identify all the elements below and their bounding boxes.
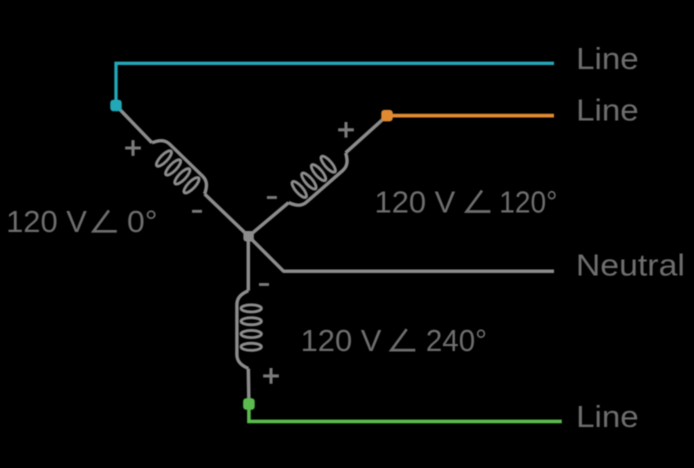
polarity + of winding L3 [263,368,279,384]
wire from node N down to winding L3 [247,236,251,290]
node A (phase A terminal dot, teal) [110,100,122,112]
wire from winding L3 to phase-C node [247,369,251,405]
svg-text:120 V: 120 V [6,204,87,239]
polarity + of winding L1 [125,140,141,156]
wire from neutral node N to winding L2 [249,203,289,237]
svg-text:0°: 0° [127,204,158,239]
svg-text:Neutral: Neutral [576,248,685,283]
polarity - of winding L3 [259,283,269,286]
svg-text:120 V: 120 V [375,184,456,219]
node N (neutral center node dot) [243,231,254,242]
wire from phase-A node to winding L1 [116,106,152,143]
svg-text:240°: 240° [426,323,487,358]
wire from winding L1 to neutral node N [205,194,249,236]
inductor winding L2 (120 V at 120 deg) [280,143,353,211]
wire: orange line conductor from phase-B node to Line terminal [387,114,554,118]
polarity + of winding L2 [338,122,354,138]
polarity - of winding L1 [192,210,202,213]
svg-text:Line: Line [576,93,639,128]
wire: neutral conductor from node N to Neutral terminal [249,236,554,271]
svg-text:120 V: 120 V [301,323,382,358]
wire: green line conductor from phase-C node to bottom Line terminal [249,404,562,421]
svg-text:Line: Line [576,41,639,76]
svg-text:Line: Line [576,399,639,434]
wire from winding L2 to phase-B node [346,116,387,153]
node C (phase C terminal dot, green) [243,398,255,410]
angle symbol for 0 deg label [94,210,117,231]
svg-text:120°: 120° [499,184,557,219]
angle symbol for 240 deg label [391,329,415,350]
node B (phase B terminal dot, orange) [381,110,393,122]
angle symbol for 120 deg label [467,191,491,212]
inductor winding L1 (120 V at 0 deg) [143,135,213,204]
polarity - of winding L2 [267,196,277,199]
inductor winding L3 (120 V at 240 deg) [237,291,261,369]
wire: teal line conductor from phase-A node to top Line terminal [116,63,554,105]
